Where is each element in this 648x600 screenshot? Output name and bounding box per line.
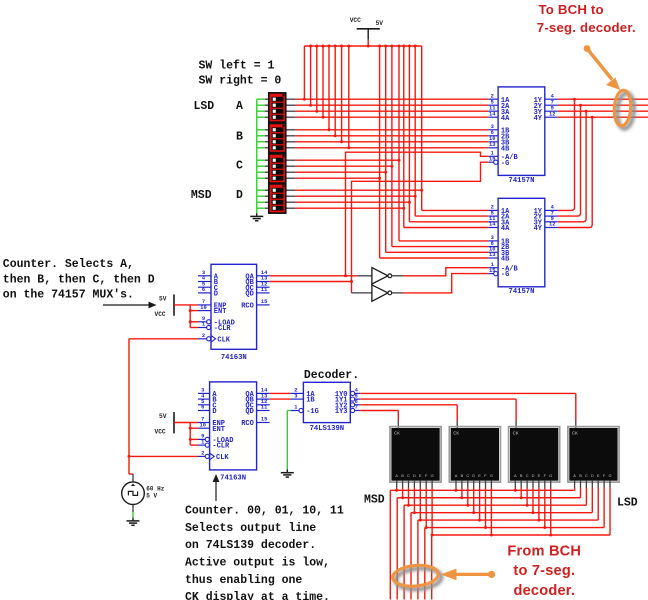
wire: riser corner to U2 input pin [392, 246, 488, 248]
svg-text:A: A [514, 473, 517, 478]
wire: display 1 segment E pin [419, 481, 421, 488]
wire: switch 7 left pin to ground bus (green) [257, 141, 265, 143]
wire: display 3 segment E pin [538, 481, 540, 488]
pin U2 1Y (pin 4) [545, 209, 558, 211]
pin U4 A (pin 3) [198, 392, 210, 394]
wire: riser corner to U2 input pin [415, 215, 488, 217]
seven-segment display U11 (digit 4) [568, 427, 619, 483]
wire: pull-up vertical to switch row 3 [316, 46, 318, 111]
wire: segment bus line C [404, 504, 586, 506]
wire: ground bus vertical (green) left of DIP switches [256, 99, 258, 213]
svg-text:D: D [214, 291, 218, 299]
svg-text:12: 12 [549, 111, 555, 117]
svg-text:5V: 5V [159, 413, 167, 420]
pin U2 2B (pin 6) [488, 246, 498, 248]
svg-text:A: A [395, 473, 398, 478]
svg-text:D: D [591, 473, 594, 478]
ground (below DIP switches) [256, 213, 258, 216]
pin U7 1Y3 (pin 7) [351, 408, 355, 412]
wire: pull-up vertical / feed to U2 (row 13) [421, 46, 423, 210]
svg-text:13: 13 [489, 142, 495, 148]
svg-text:4B: 4B [501, 145, 510, 153]
svg-text:1: 1 [202, 322, 205, 328]
svg-text:2: 2 [201, 451, 204, 457]
svg-text:E: E [597, 473, 600, 478]
pin U4 D (pin 6) [198, 410, 210, 412]
wire: pull-up vertical to switch row 7 [341, 46, 343, 142]
svg-text:D: D [472, 473, 475, 478]
svg-text:15: 15 [489, 268, 495, 274]
svg-text:Selects output line: Selects output line [185, 522, 316, 535]
pin U2 1A (pin 2) [488, 209, 498, 211]
svg-text:15: 15 [489, 156, 495, 162]
svg-text:Decoder.: Decoder. [304, 369, 359, 382]
pin U3 ENT (pin 10) [198, 310, 211, 312]
wire: inverter U5A out to U2 ~A/B [403, 268, 488, 276]
counter U3 74163N [211, 264, 257, 349]
svg-text:12: 12 [549, 222, 555, 228]
junction dots on VCC bus [309, 45, 312, 48]
svg-text:1: 1 [201, 439, 204, 445]
svg-text:E: E [538, 473, 541, 478]
svg-text:4A: 4A [501, 225, 510, 233]
pin U2 ~A/B (pin 1) [488, 267, 498, 269]
pin U4 RCO (pin 15) [257, 422, 270, 424]
pin U3 QD (pin 11) [257, 292, 270, 294]
wire: display 4 segment C pin [585, 481, 587, 488]
pin U2 4A (pin 14) [488, 227, 498, 229]
clock source V1 60 Hz 5 V [122, 482, 145, 505]
svg-text:D: D [532, 473, 535, 478]
svg-text:C: C [466, 473, 469, 478]
pin U3 QA (pin 14) [257, 275, 270, 277]
wire: switch 4 left pin to ground bus (green) [257, 116, 265, 118]
wire: pull-up vertical / feed to U2 (row 10) [391, 46, 393, 247]
svg-text:A: A [236, 100, 243, 113]
svg-text:74LS139N: 74LS139N [310, 425, 345, 433]
svg-text:11: 11 [261, 287, 267, 293]
svg-text:on 74LS139 decoder.: on 74LS139 decoder. [185, 539, 316, 552]
pin U2 3B (pin 10) [488, 251, 498, 253]
wire: switch row 16 to riser x=403.8 [286, 207, 296, 209]
wire: U1 1Y to BCH bus (right edge) [558, 98, 648, 100]
pin U2 1B (pin 3) [488, 240, 498, 242]
svg-text:G: G [549, 473, 552, 478]
wire: switch 12 left pin to ground bus (green) [257, 177, 265, 179]
pin U7 1Y0 (pin 4) [351, 391, 355, 395]
svg-text:10: 10 [200, 305, 206, 311]
svg-text:E: E [478, 473, 481, 478]
svg-text:B: B [401, 473, 404, 478]
arrow: To BCH callout (orange) [587, 49, 612, 80]
wire: display 4 segment B pin [580, 481, 582, 488]
svg-text:14: 14 [489, 111, 496, 117]
wire: U7 1Y3 to display CK (digit 1) [360, 410, 398, 412]
pin U2 ~G (pin 15) [494, 272, 498, 276]
svg-text:decoder.: decoder. [513, 583, 575, 599]
pin U1 ~A/B (pin 1) [488, 155, 498, 157]
svg-text:-CLR: -CLR [212, 443, 230, 451]
wire: VCC to U3 ENP/ENT/~LOAD/~CLR [174, 304, 198, 306]
wire: switch row 1 to U1 1A [286, 98, 296, 100]
pin U2 2Y (pin 7) [545, 215, 558, 217]
svg-text:4A: 4A [501, 115, 510, 123]
wire: segment bus line A [390, 489, 574, 491]
wire: U4 QA to U7 1A [270, 392, 291, 394]
wire: display 2 segment C pin [467, 481, 469, 488]
pin U1 1Y (pin 4) [545, 98, 558, 100]
wire: switch row 2 to U1 2A [286, 104, 296, 106]
wire: switch row 9 to riser x=399.0 [286, 159, 296, 161]
pin U1 2B (pin 6) [488, 135, 498, 137]
svg-text:D: D [212, 408, 216, 416]
arrow: From BCH callout (orange) [455, 573, 489, 576]
svg-text:7: 7 [355, 405, 358, 411]
wire: clock source to ground (green) [132, 505, 134, 513]
svg-text:CK display at a time.: CK display at a time. [185, 591, 330, 600]
arrow: annotation to counter U3 [103, 304, 151, 306]
wire: switch 11 left pin to ground bus (green) [257, 171, 265, 173]
wire: pull-up vertical / feed to U2 (row 16) [403, 46, 405, 228]
svg-text:G: G [431, 473, 434, 478]
wire: VCC top bus [304, 45, 421, 47]
pin U3 D (pin 6) [198, 292, 211, 294]
svg-text:60 Hz: 60 Hz [146, 485, 164, 492]
pin U3 C (pin 5) [198, 286, 211, 288]
svg-text:VCC: VCC [350, 17, 361, 24]
svg-text:4B: 4B [501, 256, 510, 264]
wire: U3 QA to inverters/selects [270, 275, 358, 277]
ground (below decoder enable) [286, 470, 288, 473]
wire: switch 15 left pin to ground bus (green) [257, 201, 265, 203]
svg-text:-1G: -1G [306, 408, 319, 416]
svg-text:2: 2 [202, 333, 205, 339]
wire: display 2 segment E pin [479, 481, 481, 488]
svg-text:B: B [236, 131, 243, 144]
svg-text:B: B [461, 473, 464, 478]
wire: pull-up vertical to switch row 2 [310, 46, 312, 105]
svg-text:D: D [413, 473, 416, 478]
wire: U1 4Y to BCH bus (right edge) [558, 116, 648, 118]
svg-text:4Y: 4Y [534, 225, 543, 233]
multiplexer U1 74157N [498, 87, 545, 175]
svg-text:on the 74157 MUX's.: on the 74157 MUX's. [3, 289, 134, 302]
counter U4 74163N [210, 382, 257, 470]
wire: U2 4Y riser to BCH bus [558, 117, 592, 227]
DIP switch S2 (4-position, group B) [269, 123, 286, 152]
wire: switch 8 left pin to ground bus (green) [257, 147, 265, 149]
svg-text:1B: 1B [306, 397, 315, 405]
svg-text:15: 15 [261, 417, 267, 423]
wire: pull-up vertical / feed to U2 (row 12) [379, 46, 381, 258]
wire: U7 ~1G to ground (green) [287, 410, 290, 412]
wire: switch row 6 to U1 2B [286, 135, 296, 137]
svg-text:RCO: RCO [241, 303, 254, 311]
wire: display 4 segment F pin [603, 481, 605, 488]
wire: switch row 11 to riser x=385.7 [286, 171, 296, 173]
wire: switch row 5 to U1 1B [286, 129, 296, 131]
svg-text:Counter. Selects A,: Counter. Selects A, [3, 258, 134, 271]
wire: switch 6 left pin to ground bus (green) [257, 135, 265, 137]
wire: display 1 segment D pin [413, 481, 415, 488]
wire: switch 1 left pin to ground bus (green) [257, 98, 265, 100]
svg-text:B: B [579, 473, 582, 478]
svg-text:7-seg. decoder.: 7-seg. decoder. [537, 20, 636, 35]
wire: riser corner to U2 input pin [380, 257, 489, 259]
svg-text:1: 1 [294, 405, 297, 411]
svg-text:74163N: 74163N [221, 354, 247, 362]
decoder U7 74LS139N [303, 382, 350, 422]
svg-text:D: D [236, 189, 243, 202]
seven-segment display U9 (digit 2) [449, 427, 500, 483]
svg-text:To BCH to: To BCH to [539, 2, 604, 17]
wire: switch 10 left pin to ground bus (green) [257, 165, 265, 167]
svg-text:ENT: ENT [214, 308, 227, 316]
svg-text:74163N: 74163N [220, 474, 246, 482]
svg-text:SW left = 1: SW left = 1 [199, 59, 275, 72]
wire: display 3 segment D pin [532, 481, 534, 488]
svg-text:then B, then C, then D: then B, then C, then D [3, 273, 155, 286]
svg-text:C: C [236, 160, 243, 173]
wire: display 4 segment A pin [574, 481, 576, 488]
wire: switch row 13 to riser x=421.7 [286, 189, 296, 191]
wire: U2 3Y riser to BCH bus [558, 111, 586, 222]
svg-text:74157N: 74157N [509, 177, 535, 185]
pin U2 3A (pin 11) [488, 221, 498, 223]
pin U1 1B (pin 3) [488, 129, 498, 131]
wire: switch row 3 to U1 3A [286, 110, 296, 112]
svg-text:ENT: ENT [212, 426, 225, 434]
svg-text:to 7-seg.: to 7-seg. [513, 563, 575, 579]
svg-text:-G: -G [501, 160, 509, 168]
svg-text:E: E [419, 473, 422, 478]
svg-text:13: 13 [489, 252, 495, 258]
pin U4 B (pin 4) [198, 398, 210, 400]
svg-text:CK: CK [453, 430, 459, 435]
svg-text:QD: QD [245, 291, 253, 299]
wire: U4 QB to U7 1B [270, 398, 291, 400]
svg-text:6: 6 [202, 287, 205, 293]
svg-text:From BCH: From BCH [507, 544, 581, 560]
wire: riser corner to U2 input pin [399, 240, 488, 242]
wire: display 3 segment C pin [526, 481, 528, 488]
wire: display 1 segment G pin [431, 481, 433, 488]
wire: riser corner to U2 input pin [409, 221, 488, 223]
pin U3 ~LOAD (pin 9) [207, 320, 211, 324]
svg-text:MSD: MSD [191, 189, 212, 202]
pin U3 CLK (pin 2) [207, 337, 211, 341]
pin U1 2Y (pin 7) [545, 104, 558, 106]
svg-text:VCC: VCC [155, 429, 166, 436]
pin U7 1Y2 (pin 6) [351, 403, 355, 407]
svg-text:14: 14 [489, 222, 496, 228]
arrow: annotation to counter U4 [215, 480, 217, 502]
svg-text:CK: CK [513, 430, 519, 435]
wire: pull-up vertical to switch row 8 [348, 46, 350, 148]
svg-text:SW right = 0: SW right = 0 [199, 75, 282, 88]
svg-text:15: 15 [261, 299, 267, 305]
wire: U1 3Y to BCH bus (right edge) [558, 110, 648, 112]
pin U1 3A (pin 11) [488, 110, 498, 112]
wire: U7 1Y1 to display CK (digit 3) [360, 398, 516, 400]
wire: segment bus line G [432, 534, 610, 536]
svg-text:-G: -G [501, 271, 509, 279]
pin U4 QC (pin 12) [257, 404, 270, 406]
svg-text:MSD: MSD [364, 493, 385, 506]
svg-text:4Y: 4Y [534, 115, 543, 123]
wire: display 1 segment F pin [425, 481, 427, 488]
pin U4 ~CLR (pin 1) [205, 443, 209, 447]
pin U1 4A (pin 14) [488, 116, 498, 118]
svg-text:5 V: 5 V [146, 492, 157, 499]
pin U1 3B (pin 10) [488, 141, 498, 143]
svg-text:A: A [573, 473, 576, 478]
pin U3 B (pin 4) [198, 281, 211, 283]
svg-text:CLK: CLK [217, 336, 230, 344]
wire: display 2 segment D pin [473, 481, 475, 488]
svg-text:6: 6 [201, 405, 204, 411]
wire: counter QA to U1 ~A/B select [346, 152, 489, 276]
pin U3 RCO (pin 15) [257, 304, 270, 306]
svg-text:RCO: RCO [241, 420, 254, 428]
wire: display 4 segment D pin [591, 481, 593, 488]
svg-text:LSD: LSD [194, 100, 215, 113]
wire: display 3 segment A pin [514, 481, 516, 488]
wire: segment bus line B [397, 497, 580, 499]
pin U4 ~LOAD (pin 9) [205, 437, 209, 441]
top VCC power symbol [357, 28, 380, 30]
pin U4 QB (pin 13) [257, 398, 270, 400]
pin U7 1Y1 (pin 5) [351, 397, 355, 401]
wire: pull-up vertical / feed to U2 (row 15) [408, 46, 410, 222]
inverter U6A (NOT gate) [352, 292, 372, 294]
wire: U7 1Y0 to display CK (digit 4) [360, 392, 576, 394]
pin U2 4B (pin 13) [488, 257, 498, 259]
pin U4 QA (pin 14) [257, 392, 270, 394]
svg-text:G: G [608, 473, 611, 478]
pin U4 ENT (pin 10) [198, 427, 210, 429]
wire: VCC to U4 ENP/ENT/~LOAD/~CLR [174, 422, 198, 424]
wire: switch 16 left pin to ground bus (green) [257, 207, 265, 209]
wire: U1 2Y to BCH bus (right edge) [558, 104, 648, 106]
highlight ellipse (top, around BCH bus) [613, 90, 632, 127]
wire: switch 2 left pin to ground bus (green) [257, 104, 265, 106]
svg-text:thus enabling one: thus enabling one [185, 574, 302, 587]
highlight ellipse (bottom, around segment bus) [392, 564, 439, 588]
wire: U2 2Y riser to BCH bus [558, 105, 581, 216]
svg-text:11: 11 [261, 405, 267, 411]
pin U7 ~1G (pin 1) [299, 408, 303, 412]
pin U1 4B (pin 13) [488, 147, 498, 149]
wire: inverter U6A out to U2 ~G [403, 274, 488, 293]
seven-segment display U10 (digit 3) [509, 427, 560, 483]
wire: switch 13 left pin to ground bus (green) [257, 189, 265, 191]
pin U3 ENP (pin 7) [198, 304, 211, 306]
wire: display 4 segment G pin [609, 481, 611, 488]
svg-text:G: G [490, 473, 493, 478]
wire: counter QB to U1 ~G [352, 162, 489, 293]
wire: pull-up vertical to switch row 1 [303, 46, 305, 99]
pin U2 3Y (pin 9) [545, 221, 558, 223]
pin U7 1B (pin 3) [290, 398, 303, 400]
pin U2 4Y (pin 12) [545, 227, 558, 229]
wire: pull-up vertical to switch row 4 [322, 46, 324, 117]
svg-text:C: C [407, 473, 410, 478]
wire: pull-up vertical / feed to U2 (row 9) [398, 46, 400, 241]
wire: segment bus line E [418, 519, 598, 521]
pin U3 QC (pin 12) [257, 286, 270, 288]
seven-segment display U8 (digit 1) [390, 427, 441, 483]
wire: display 1 segment A pin [396, 481, 398, 488]
DIP switch S4 (4-position, group D) [269, 184, 286, 213]
wire: display 2 segment G pin [490, 481, 492, 488]
wire: display 2 segment A pin [455, 481, 457, 488]
wire: display 1 segment C pin [408, 481, 410, 488]
pin U1 3Y (pin 9) [545, 110, 558, 112]
svg-text:Active output is low,: Active output is low, [185, 557, 330, 570]
svg-text:5V: 5V [159, 295, 167, 302]
DIP switch S1 (4-position, group A) [269, 93, 286, 122]
wire: riser corner to U2 input pin [386, 251, 489, 253]
svg-text:C: C [526, 473, 529, 478]
wire: switch row 4 to U1 4A [286, 116, 296, 118]
svg-text:VCC: VCC [155, 311, 166, 318]
wire: display 3 segment F pin [544, 481, 546, 488]
svg-text:10: 10 [200, 422, 206, 428]
wire: switch 14 left pin to ground bus (green) [257, 195, 265, 197]
highlight ellipse shadow (bottom) [395, 567, 442, 591]
pin U4 QD (pin 11) [257, 410, 270, 412]
inverter U5A (NOT gate) [358, 275, 372, 277]
svg-text:CK: CK [572, 430, 578, 435]
svg-text:LSD: LSD [617, 497, 638, 510]
wire: switch row 10 to riser x=391.9 [286, 165, 296, 167]
wire: display 4 segment E pin [597, 481, 599, 488]
pin U3 QB (pin 13) [257, 281, 270, 283]
wire: pull-up vertical / feed to U2 (row 14) [414, 46, 416, 216]
wire: riser corner to U2 input pin [404, 227, 489, 229]
wire: switch row 7 to U1 3B [286, 141, 296, 143]
wire: segment bus line D [411, 512, 592, 514]
wire: switch 5 left pin to ground bus (green) [257, 129, 265, 131]
wire: clock source to U3 CLK and U4 CLK [129, 338, 198, 340]
svg-text:Counter. 00, 01, 10, 11: Counter. 00, 01, 10, 11 [185, 505, 344, 518]
pin U4 ENP (pin 7) [198, 422, 210, 424]
svg-text:C: C [585, 473, 588, 478]
DIP switch S3 (4-position, group C) [269, 154, 286, 183]
wire: riser corner to U2 input pin [422, 209, 489, 211]
wire: U3 QB to inverter 2 [270, 281, 352, 283]
wire: display 3 segment G pin [550, 481, 552, 488]
svg-text:1Y3: 1Y3 [335, 408, 348, 416]
wire: display 2 segment F pin [485, 481, 487, 488]
pin U3 ~CLR (pin 1) [207, 325, 211, 329]
pin U1 ~G (pin 15) [494, 160, 498, 164]
svg-text:74157N: 74157N [509, 288, 535, 296]
pin U1 1A (pin 2) [488, 98, 498, 100]
svg-text:B: B [520, 473, 523, 478]
pin U3 A (pin 3) [198, 275, 211, 277]
wire: pull-up vertical / feed to U2 (row 11) [385, 46, 387, 252]
wire: display 1 segment B pin [402, 481, 404, 488]
wire: segment bus line F [425, 527, 604, 529]
pin U1 4Y (pin 12) [545, 116, 558, 118]
wire: switch row 12 to riser x=379.6 [286, 177, 296, 179]
svg-text:CLK: CLK [216, 454, 229, 462]
pin U4 CLK (pin 2) [205, 454, 209, 458]
wire: switch row 15 to riser x=409.4 [286, 201, 296, 203]
multiplexer U2 74157N [498, 198, 545, 286]
